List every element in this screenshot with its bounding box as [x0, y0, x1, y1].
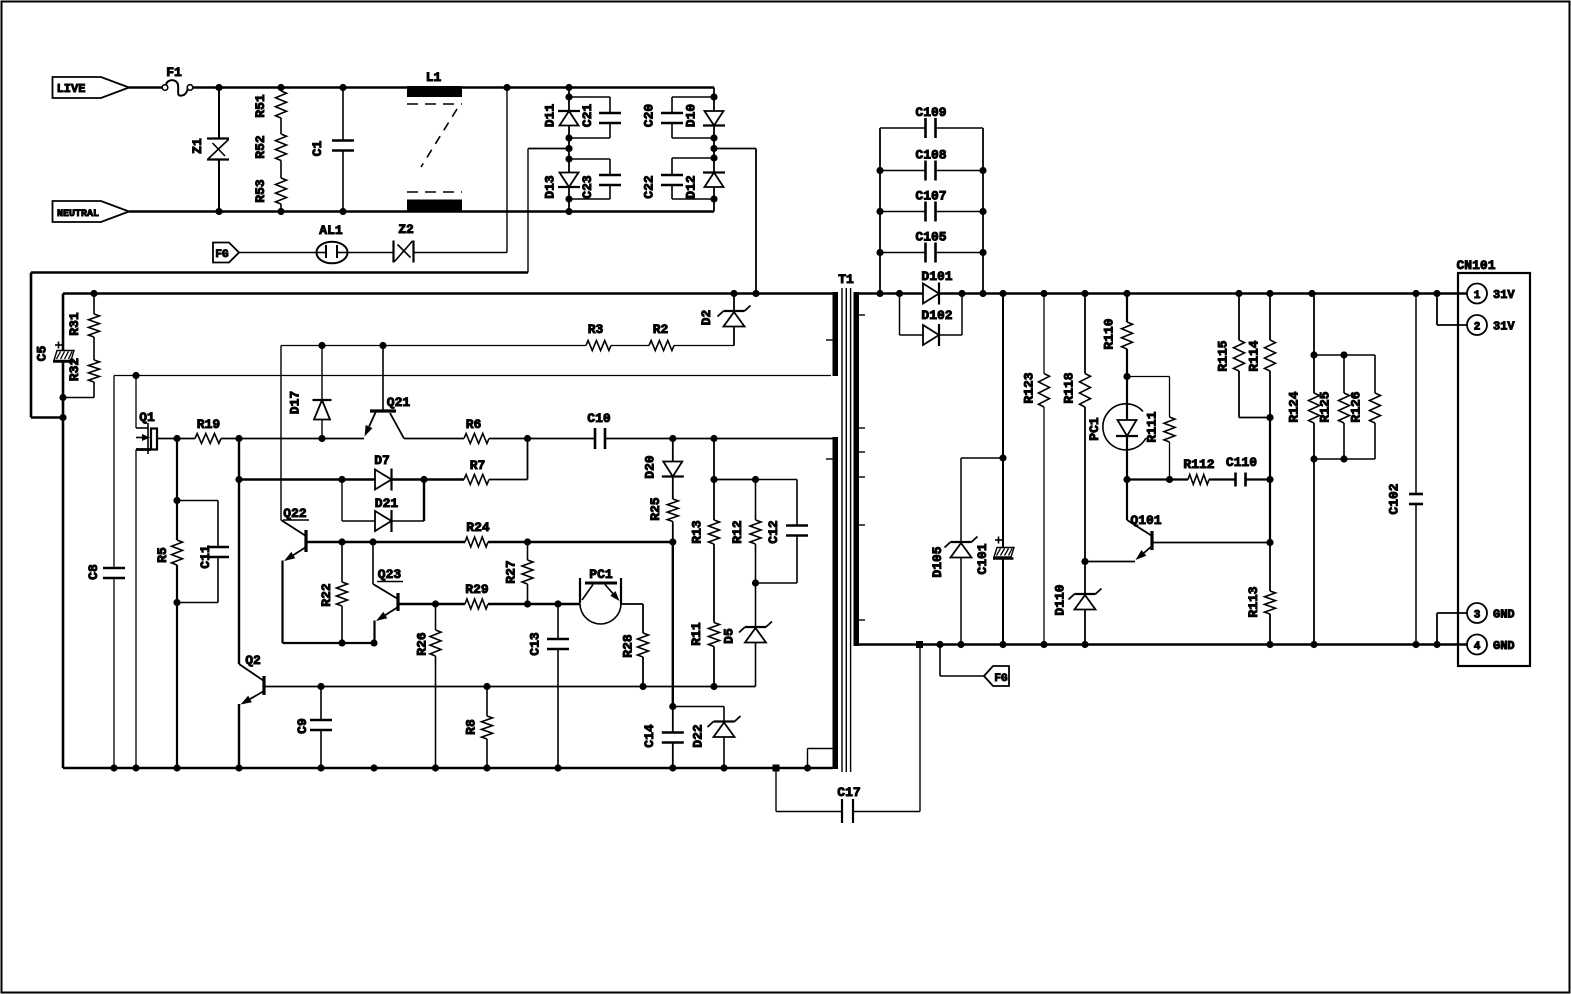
transformer T1 secondary winding	[854, 292, 866, 646]
junction	[235, 435, 242, 442]
junction	[876, 167, 883, 174]
wire	[176, 565, 178, 768]
junction	[1266, 290, 1273, 297]
junction	[524, 435, 531, 442]
svg-text:Z1: Z1	[190, 138, 205, 154]
junction	[1166, 476, 1173, 483]
svg-text:C109: C109	[915, 105, 946, 120]
wire	[283, 561, 375, 644]
svg-text:C20: C20	[642, 104, 657, 128]
svg-text:C8: C8	[86, 564, 101, 580]
junction	[132, 372, 139, 379]
junction	[565, 93, 572, 100]
wire	[713, 88, 715, 112]
svg-text:FG: FG	[994, 673, 1008, 685]
junction	[916, 641, 923, 648]
svg-text:D110: D110	[1053, 584, 1068, 615]
svg-text:Q101: Q101	[1130, 513, 1161, 528]
resistor R31	[67, 294, 100, 338]
junction	[339, 208, 346, 215]
resistor R114	[1247, 294, 1276, 418]
junction	[59, 394, 66, 401]
svg-text:C21: C21	[580, 104, 595, 128]
svg-text:D21: D21	[375, 496, 399, 511]
wire	[280, 204, 282, 212]
diode D7	[374, 453, 391, 491]
junction	[565, 155, 572, 162]
junction	[503, 84, 510, 91]
resistor R112	[1183, 457, 1214, 485]
junction	[565, 84, 572, 91]
junction	[876, 208, 883, 215]
junction	[110, 764, 117, 771]
svg-text:R118: R118	[1062, 372, 1077, 403]
svg-text:C5: C5	[35, 346, 50, 362]
svg-text:Q22: Q22	[283, 506, 307, 521]
svg-text:R27: R27	[504, 560, 519, 583]
wire	[239, 252, 317, 254]
capacitor C109	[880, 105, 983, 138]
svg-text:R2: R2	[653, 322, 669, 337]
wire	[372, 542, 374, 584]
wire	[713, 544, 715, 623]
junction	[1266, 414, 1273, 421]
junction	[132, 764, 139, 771]
junction	[565, 208, 572, 215]
svg-text:R115: R115	[1216, 340, 1231, 371]
junction	[979, 208, 986, 215]
resistor R125	[1318, 355, 1350, 459]
wire	[280, 161, 282, 179]
capacitor C11	[177, 501, 229, 603]
resistor R110	[1102, 294, 1133, 377]
svg-text:R12: R12	[730, 520, 745, 544]
junction	[339, 84, 346, 91]
junction	[1235, 290, 1242, 297]
svg-text:R7: R7	[470, 458, 486, 473]
diode D17	[288, 346, 332, 439]
transistor Q2	[239, 653, 264, 705]
capacitor C10	[587, 411, 611, 449]
junction	[318, 435, 325, 442]
wire	[281, 345, 734, 347]
transistor Q1	[136, 410, 177, 454]
wire	[114, 376, 831, 569]
junction	[669, 703, 676, 710]
junction	[669, 538, 676, 545]
resistor R27	[504, 542, 534, 604]
capacitor C13	[528, 604, 570, 768]
varistor Z2	[394, 222, 414, 263]
junction	[317, 764, 324, 771]
svg-text:R125: R125	[1318, 391, 1333, 422]
junction	[710, 145, 717, 152]
svg-text:C23: C23	[580, 175, 595, 199]
svg-text:C107: C107	[915, 189, 946, 204]
resistor R113	[1246, 543, 1276, 645]
junction	[215, 208, 222, 215]
wire	[568, 126, 570, 149]
svg-text:R24: R24	[466, 520, 490, 535]
transistor Q23	[373, 567, 403, 621]
svg-text:R123: R123	[1022, 372, 1037, 403]
wire	[488, 603, 580, 605]
junction	[1433, 641, 1440, 648]
capacitor C21	[569, 97, 621, 138]
capacitor C1	[310, 88, 354, 212]
junction	[173, 764, 180, 771]
junction	[524, 600, 531, 607]
svg-text:Q23: Q23	[378, 567, 402, 582]
junction	[1308, 290, 1315, 297]
wire primary - rail	[63, 767, 833, 770]
capacitor C9	[295, 687, 332, 769]
svg-text:D105: D105	[930, 546, 945, 577]
diode D20	[643, 439, 684, 479]
pin 4 (GND)	[1467, 635, 1515, 655]
junction	[1266, 641, 1273, 648]
varistor Z1	[190, 88, 229, 212]
junction	[979, 290, 986, 297]
zener D22	[673, 707, 741, 769]
svg-text:R52: R52	[253, 135, 268, 159]
svg-text:L1: L1	[426, 70, 442, 85]
resistor R32	[67, 358, 100, 382]
diode D101	[921, 269, 952, 305]
connector LIVE	[53, 77, 130, 98]
junction	[752, 290, 759, 297]
resistor R7	[464, 458, 489, 485]
svg-text:PC1: PC1	[589, 567, 613, 582]
junction	[483, 683, 490, 690]
capacitor C110	[1226, 455, 1257, 487]
junction	[370, 764, 377, 771]
junction	[1266, 539, 1273, 546]
junction	[565, 195, 572, 202]
junction	[235, 476, 242, 483]
svg-text:31V: 31V	[1493, 320, 1515, 334]
svg-text:R124: R124	[1287, 391, 1302, 422]
svg-text:C1: C1	[310, 141, 325, 157]
junction	[554, 764, 561, 771]
junction	[370, 639, 377, 646]
junction	[1081, 641, 1088, 648]
junction	[432, 764, 439, 771]
wire	[568, 149, 570, 173]
wire	[176, 439, 178, 541]
svg-text:D5: D5	[722, 628, 737, 644]
svg-text:D101: D101	[921, 269, 952, 284]
svg-text:4: 4	[1474, 641, 1481, 653]
svg-text:D11: D11	[543, 104, 558, 128]
wire	[93, 337, 95, 360]
wire	[414, 88, 508, 253]
svg-text:R25: R25	[648, 497, 663, 521]
svg-text:R113: R113	[1246, 586, 1261, 617]
wire	[280, 346, 282, 521]
junction	[369, 538, 376, 545]
junction	[554, 600, 561, 607]
svg-text:Q21: Q21	[387, 395, 411, 410]
junction	[1412, 641, 1419, 648]
junction	[1040, 641, 1047, 648]
zener D2	[699, 294, 751, 346]
junction	[90, 290, 97, 297]
capacitor C102	[1387, 294, 1424, 645]
wire	[488, 541, 673, 543]
wire Q23 base net	[398, 603, 465, 605]
power symbol FG	[940, 645, 1009, 687]
resistor R13	[690, 480, 720, 545]
junction	[1310, 641, 1317, 648]
zener D105	[930, 458, 1003, 645]
wire NEUTRAL rail	[129, 210, 714, 213]
wire	[221, 438, 364, 440]
junction	[979, 249, 986, 256]
capacitor C23	[569, 159, 621, 199]
svg-text:R51: R51	[253, 94, 268, 118]
wire	[642, 657, 644, 687]
wire	[621, 604, 643, 633]
fuse F1	[162, 65, 193, 96]
junction	[1123, 476, 1130, 483]
wire	[348, 252, 394, 254]
diode D21	[342, 480, 424, 533]
pin 3 (GND)	[1437, 603, 1515, 645]
resistor R51	[253, 88, 287, 119]
junction	[379, 342, 386, 349]
svg-text:1: 1	[1474, 290, 1481, 302]
wire	[1002, 294, 1004, 548]
zener D110	[1053, 562, 1102, 645]
resistor R24	[465, 520, 490, 547]
transistor Q21	[365, 346, 411, 439]
junction	[1040, 290, 1047, 297]
junction	[710, 154, 717, 161]
wire	[1314, 354, 1375, 356]
junction	[432, 600, 439, 607]
junction	[1433, 290, 1440, 297]
capacitor C22	[642, 158, 715, 199]
junction	[710, 93, 717, 100]
wire	[135, 376, 137, 769]
svg-text:C17: C17	[837, 785, 860, 800]
junction	[1081, 558, 1088, 565]
junction	[338, 476, 345, 483]
pin 2 (31V)	[1437, 294, 1515, 336]
diode D10	[684, 104, 726, 128]
svg-text:F1: F1	[166, 65, 182, 80]
svg-text:R28: R28	[621, 634, 636, 658]
junction	[338, 538, 345, 545]
diode D12	[684, 173, 726, 199]
wire	[713, 439, 715, 480]
capacitor C8	[86, 564, 125, 768]
wire	[373, 621, 375, 644]
svg-text:AL1: AL1	[319, 223, 343, 238]
svg-text:GND: GND	[1493, 639, 1515, 653]
svg-text:R111: R111	[1145, 411, 1160, 442]
junction	[565, 145, 572, 152]
junction	[669, 764, 676, 771]
wire Q22 base net	[306, 541, 465, 543]
svg-text:C110: C110	[1226, 455, 1257, 470]
svg-text:R112: R112	[1183, 457, 1214, 472]
lamp AL1	[317, 223, 348, 263]
wire	[1246, 478, 1271, 480]
svg-text:C13: C13	[528, 632, 543, 656]
junction	[896, 290, 903, 297]
junction	[1081, 290, 1088, 297]
junction	[1310, 351, 1317, 358]
diode D11	[543, 104, 581, 128]
junction	[710, 435, 717, 442]
svg-text:D102: D102	[921, 308, 952, 323]
junction	[710, 683, 717, 690]
svg-text:R6: R6	[466, 417, 482, 432]
capacitor C105	[880, 230, 983, 263]
capacitor C5 (polarized)	[35, 342, 75, 362]
diode D102	[900, 294, 963, 347]
wire	[528, 149, 569, 273]
junction	[318, 342, 325, 349]
wire	[31, 273, 528, 418]
svg-text:3: 3	[1474, 610, 1481, 622]
junction	[1123, 373, 1130, 380]
wire	[1085, 561, 1135, 563]
svg-text:D20: D20	[643, 455, 658, 479]
junction	[639, 683, 646, 690]
wire	[63, 382, 94, 398]
svg-text:NEUTRAL: NEUTRAL	[57, 209, 99, 220]
wire primary + rail	[63, 292, 833, 295]
wire	[1314, 458, 1375, 460]
optocoupler PC1 (LED)	[1087, 377, 1146, 480]
svg-text:C102: C102	[1387, 483, 1402, 514]
wire	[238, 439, 240, 480]
resistor R11	[689, 622, 720, 686]
svg-text:Z2: Z2	[398, 222, 414, 237]
resistor R29	[465, 582, 489, 609]
capacitor C20	[642, 97, 715, 138]
wire	[1209, 478, 1236, 480]
svg-text:Q2: Q2	[245, 653, 261, 668]
wire	[238, 704, 240, 768]
wire D7 net	[239, 478, 375, 480]
transistor Q22	[281, 506, 309, 561]
resistor R19	[177, 417, 221, 444]
svg-text:R53: R53	[253, 179, 268, 203]
svg-text:GND: GND	[1493, 608, 1515, 622]
capacitor C12	[756, 480, 809, 584]
wire	[404, 438, 464, 440]
junction	[173, 497, 180, 504]
junction	[1340, 351, 1347, 358]
junction	[957, 641, 964, 648]
svg-text:R5: R5	[155, 547, 170, 563]
junction	[979, 167, 986, 174]
wire	[129, 86, 162, 89]
svg-text:C14: C14	[642, 724, 657, 748]
junction	[317, 683, 324, 690]
svg-text:2: 2	[1474, 322, 1481, 334]
resistor R26	[415, 604, 442, 768]
junction	[338, 639, 345, 646]
wire LIVE rail	[219, 86, 714, 89]
wire	[1269, 418, 1271, 543]
resistor R123	[1022, 294, 1050, 645]
junction	[524, 538, 531, 545]
resistor R25	[648, 477, 678, 543]
wire	[1002, 559, 1004, 645]
junction	[59, 414, 66, 421]
junction	[710, 195, 717, 202]
junction	[752, 579, 759, 586]
junction	[773, 765, 780, 772]
resistor R115	[1216, 294, 1271, 418]
svg-text:31V: 31V	[1493, 288, 1515, 302]
junction	[710, 476, 717, 483]
svg-text:R26: R26	[415, 632, 430, 656]
wire	[714, 479, 756, 481]
connector NEUTRAL	[53, 201, 130, 222]
capacitor C14	[642, 707, 684, 769]
junction	[1266, 476, 1273, 483]
wire	[568, 88, 570, 111]
power symbol FG	[213, 243, 239, 263]
resistor R12	[730, 480, 761, 584]
junction	[173, 435, 180, 442]
svg-text:Q1: Q1	[139, 410, 155, 425]
svg-text:R32: R32	[67, 358, 82, 382]
junction	[235, 764, 242, 771]
wire	[713, 126, 715, 173]
svg-text:C22: C22	[642, 175, 657, 199]
junction	[1412, 290, 1419, 297]
wire	[193, 86, 220, 89]
svg-text:R11: R11	[689, 622, 704, 646]
svg-text:R31: R31	[67, 312, 82, 336]
resistor R28	[621, 633, 649, 658]
wire Q2 base net	[264, 686, 756, 688]
svg-text:C9: C9	[295, 718, 310, 734]
svg-text:R13: R13	[690, 520, 705, 544]
junction	[804, 764, 811, 771]
svg-text:D12: D12	[684, 175, 699, 199]
resistor R124	[1287, 294, 1320, 645]
resistor R22	[319, 542, 348, 643]
svg-text:D7: D7	[374, 453, 390, 468]
wire	[714, 149, 756, 294]
junction	[483, 764, 490, 771]
svg-text:C11: C11	[198, 545, 213, 569]
capacitor C101 (polarized)	[975, 537, 1014, 575]
svg-text:D17: D17	[288, 391, 303, 414]
svg-text:C12: C12	[766, 520, 781, 544]
svg-text:LIVE: LIVE	[57, 82, 86, 96]
junction	[999, 641, 1006, 648]
junction	[752, 476, 759, 483]
junction	[999, 454, 1006, 461]
junction	[420, 476, 427, 483]
resistor R2	[649, 322, 674, 351]
resistor R8	[464, 687, 493, 769]
transistor Q101	[1127, 513, 1162, 560]
junction	[669, 435, 676, 442]
capacitor C107	[880, 189, 983, 222]
transformer T1 primary winding	[826, 272, 854, 769]
svg-text:C101: C101	[975, 543, 990, 574]
